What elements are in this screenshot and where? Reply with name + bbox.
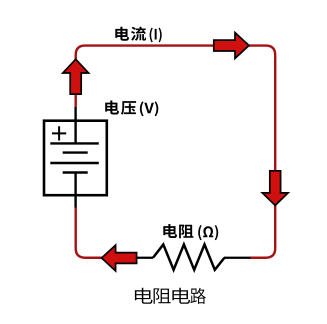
battery plate short [63,151,88,153]
resistor R1 black lead left [130,257,153,259]
label: current 电流 (I) [115,27,161,43]
wire: black battery top lead [74,107,76,143]
battery V1 box [44,121,107,196]
wire: red loop top-left corner + top segment + right segment + corners [76,46,276,258]
resistor R1 black lead right [224,257,251,259]
current arrow left (bottom branch) [102,245,137,271]
wire: black battery bottom lead [74,173,76,208]
resistor R1 zigzag [153,245,224,270]
battery plate short bottom [63,171,88,173]
title: 电阻电路 [135,288,206,304]
current arrow down (right branch) [262,171,288,206]
label: voltage 电压 (V) [105,101,158,117]
battery plate long bottom [50,162,99,164]
battery plus terminal mark [52,126,66,140]
wire: red bottom-left segment from corner up left vertical [76,207,110,258]
current arrow up (left branch) [63,59,89,94]
battery plate long top [50,142,99,144]
label: resistance 电阻 (Ω) [163,224,218,240]
current arrow right (top branch) [214,33,249,59]
